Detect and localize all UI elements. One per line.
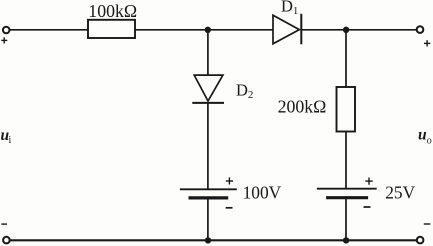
svg-text:100kΩ: 100kΩ <box>88 1 137 21</box>
svg-text:u: u <box>418 126 427 143</box>
svg-text:i: i <box>9 135 12 146</box>
svg-text:o: o <box>427 136 432 147</box>
svg-text:200kΩ: 200kΩ <box>278 97 327 117</box>
svg-text:100V: 100V <box>243 182 282 202</box>
svg-text:D1: D1 <box>281 0 298 17</box>
svg-text:25V: 25V <box>385 182 415 202</box>
svg-text:D2: D2 <box>236 81 253 102</box>
